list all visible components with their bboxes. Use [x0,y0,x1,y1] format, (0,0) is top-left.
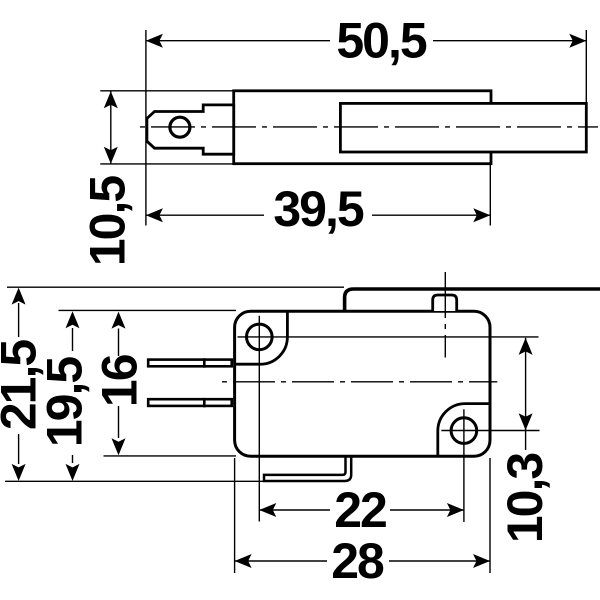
terminal 2 (lower) [148,398,232,407]
dimension 28 line [235,554,490,568]
dimension 21,5 line [12,288,26,481]
lever (front view, thick) [345,289,600,312]
svg-text:19,5: 19,5 [37,357,93,448]
svg-text:10,3: 10,3 [497,454,553,544]
boss around bottom-right hole [438,404,490,457]
dimension 39,5 line [146,208,490,222]
top-left mounting hole [246,324,272,350]
extension line bottom of body (for 16) [104,455,237,457]
crosshair horizontal bottom-right hole (extends to 10,3 dim) [441,430,539,432]
dimension 10,5 line [104,91,118,164]
crosshair horizontal top-left hole (extends to 10,3 dim) [238,336,539,338]
front view: extension line / lever top (thin part) [7,286,344,288]
top view: extension line right for 39,5 [489,164,491,226]
top view: extension line left [145,30,147,226]
crosshair vertical top-left hole (extends down for 22) [258,316,260,522]
front view: switch body [235,311,490,456]
svg-text:10,5: 10,5 [80,176,136,267]
top view: extension line bottom for 10,5 [100,163,233,165]
dimension 19,5 line [66,311,80,481]
svg-text:39,5: 39,5 [273,181,364,237]
top view: plunger tip with step [147,105,234,154]
dimension 16 line [112,312,126,456]
extension line top of body (for 19,5 and 16) [59,309,237,311]
extension line bottom hook (for 21,5 and 19,5) [5,480,264,482]
top view: center line [140,126,598,128]
bottom-right mounting hole [451,418,477,444]
dimension 50,5 line [146,34,586,48]
dimension 22 line [259,503,464,517]
top view: lever rod [340,103,586,152]
top view: extension line right for 50,5 [585,30,587,103]
front view: vertical center line of button [444,272,446,358]
svg-text:50,5: 50,5 [336,13,427,69]
extension line body right edge down (for 28) [489,458,491,573]
front view: horizontal center line [222,381,497,383]
hook terminal at bottom [264,456,351,481]
dimension 10,3 line [519,338,533,450]
crosshair vertical bottom-right hole (extends down for 22) [463,409,465,522]
top view: main body rectangle [234,91,491,164]
terminal 1 (upper) [148,358,232,367]
svg-text:16: 16 [92,355,148,407]
extension line body left edge down (for 28) [234,458,236,573]
front view: push button [433,295,457,311]
svg-text:22: 22 [334,482,386,538]
boss around top-left hole [235,311,288,364]
top view: hole in plunger [170,117,190,137]
top view: extension line top for 10,5 [100,90,233,92]
svg-text:28: 28 [331,533,384,589]
